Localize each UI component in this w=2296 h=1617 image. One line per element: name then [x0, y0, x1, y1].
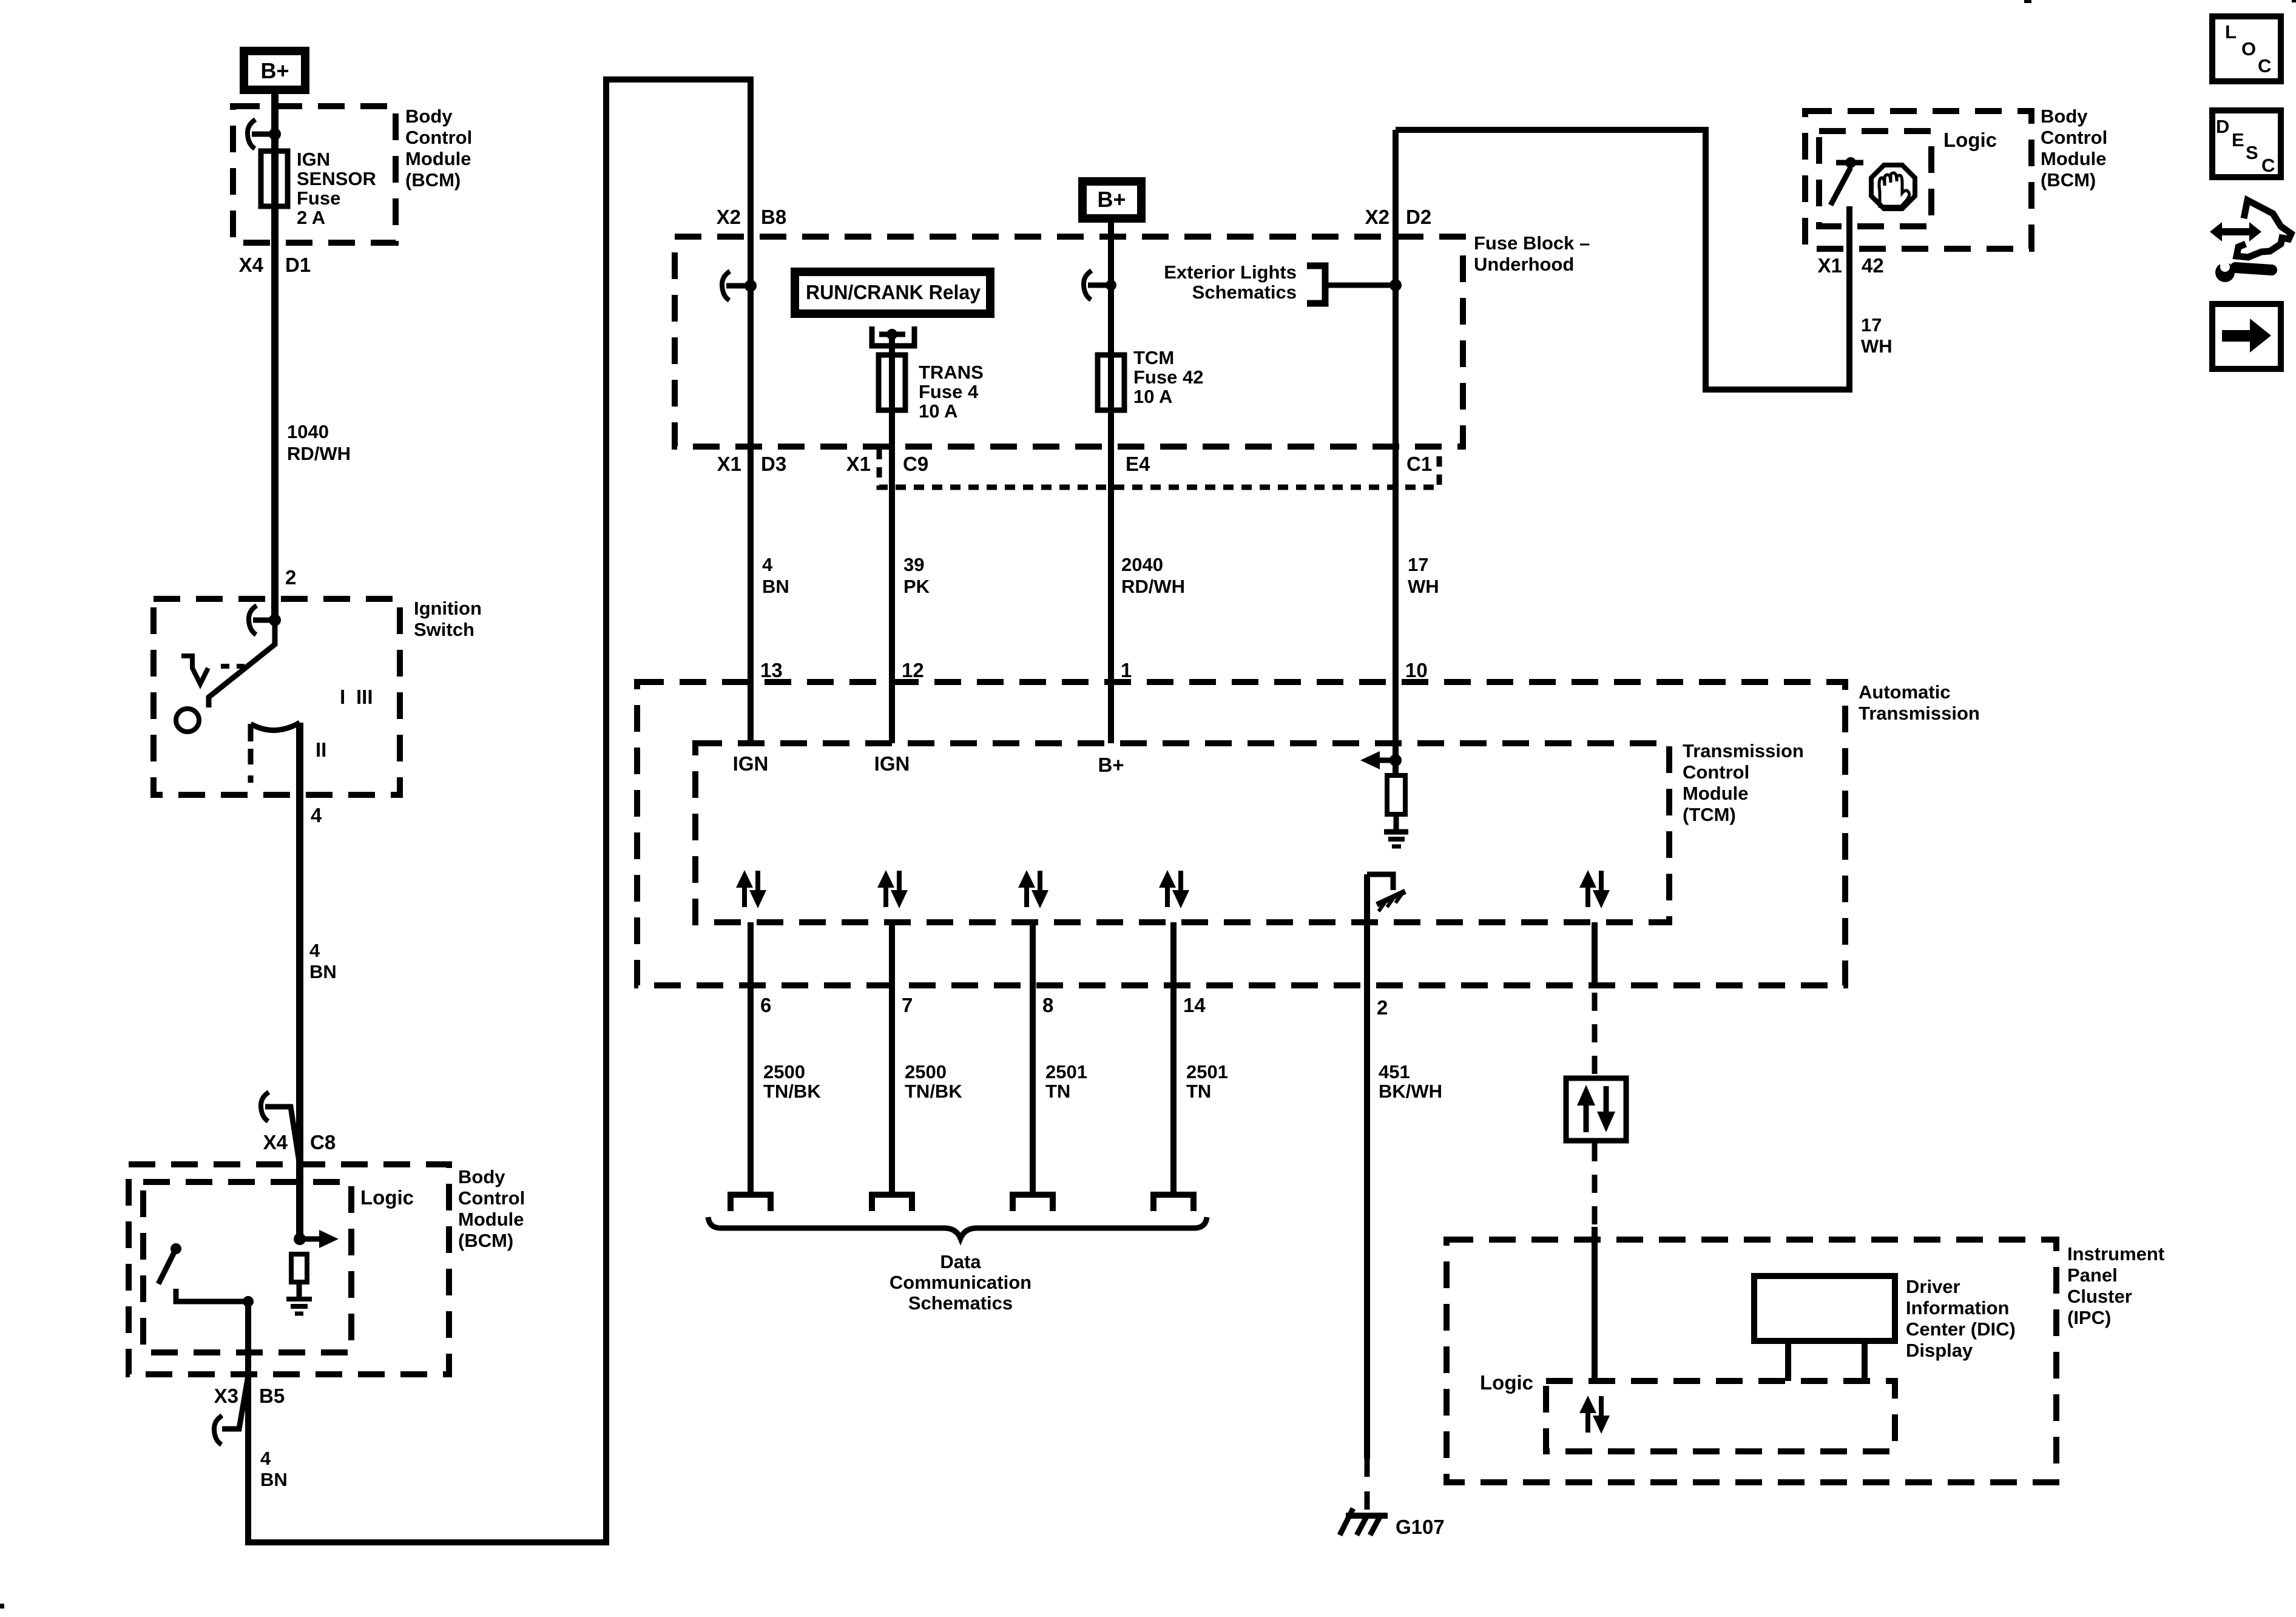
svg-text:(BCM): (BCM) — [405, 169, 461, 191]
svg-text:BN: BN — [309, 961, 337, 982]
svg-text:D: D — [2216, 116, 2229, 137]
svg-text:X1: X1 — [846, 453, 871, 475]
svg-text:B+: B+ — [1097, 187, 1126, 212]
svg-text:12: 12 — [902, 659, 924, 681]
svg-text:7: 7 — [902, 994, 913, 1016]
svg-text:Logic: Logic — [360, 1186, 414, 1209]
svg-text:L: L — [2225, 21, 2237, 42]
svg-text:10: 10 — [1405, 659, 1428, 681]
svg-text:III: III — [356, 686, 373, 708]
svg-text:Body: Body — [405, 106, 453, 127]
svg-text:17: 17 — [1408, 554, 1428, 575]
svg-text:C1: C1 — [1406, 453, 1432, 475]
svg-text:Control: Control — [1683, 761, 1749, 783]
svg-text:1: 1 — [1121, 659, 1132, 681]
svg-text:(IPC): (IPC) — [2067, 1307, 2111, 1328]
svg-text:Center (DIC): Center (DIC) — [1906, 1318, 2016, 1340]
svg-text:O: O — [2241, 38, 2256, 59]
svg-text:RD/WH: RD/WH — [1121, 576, 1185, 597]
svg-text:Ignition: Ignition — [414, 598, 482, 619]
svg-text:6: 6 — [760, 994, 771, 1016]
svg-text:D2: D2 — [1406, 206, 1431, 228]
svg-text:TRANS: TRANS — [919, 362, 984, 383]
svg-text:B+: B+ — [1098, 754, 1124, 776]
svg-text:Schematics: Schematics — [908, 1292, 1013, 1314]
svg-text:Logic: Logic — [1943, 129, 1997, 151]
svg-text:B8: B8 — [761, 206, 786, 228]
svg-text:Communication: Communication — [890, 1272, 1032, 1293]
svg-text:I: I — [340, 686, 345, 708]
svg-text:TN: TN — [1045, 1081, 1070, 1102]
svg-text:PK: PK — [903, 576, 930, 597]
svg-text:(BCM): (BCM) — [458, 1230, 513, 1251]
svg-text:Control: Control — [2041, 127, 2107, 148]
svg-text:X1: X1 — [1818, 254, 1842, 277]
svg-text:Information: Information — [1906, 1297, 2010, 1318]
svg-text:D1: D1 — [285, 254, 311, 276]
svg-text:Cluster: Cluster — [2067, 1286, 2132, 1307]
svg-text:8: 8 — [1042, 994, 1053, 1016]
svg-text:Schematics: Schematics — [1192, 282, 1297, 303]
svg-text:G107: G107 — [1396, 1516, 1445, 1538]
svg-text:D3: D3 — [761, 453, 786, 475]
svg-text:Control: Control — [405, 127, 472, 148]
svg-text:B5: B5 — [259, 1385, 285, 1407]
svg-text:10 A: 10 A — [1133, 386, 1172, 407]
svg-text:S: S — [2246, 142, 2258, 163]
svg-text:2: 2 — [1377, 996, 1388, 1019]
svg-text:(TCM): (TCM) — [1683, 804, 1736, 825]
svg-text:Body: Body — [2041, 106, 2088, 127]
svg-text:2: 2 — [285, 566, 296, 589]
svg-text:Control: Control — [458, 1187, 525, 1209]
svg-text:Data: Data — [940, 1251, 981, 1272]
svg-text:2501: 2501 — [1186, 1061, 1228, 1082]
svg-text:Module: Module — [2041, 148, 2107, 169]
svg-text:RD/WH: RD/WH — [287, 443, 351, 464]
svg-text:IGN: IGN — [733, 752, 769, 775]
svg-text:X4: X4 — [263, 1131, 288, 1153]
svg-text:4: 4 — [311, 804, 322, 826]
svg-text:X4: X4 — [239, 254, 264, 276]
svg-text:Fuse Block –: Fuse Block – — [1474, 232, 1590, 254]
svg-text:2500: 2500 — [763, 1061, 805, 1082]
svg-text:4: 4 — [260, 1448, 271, 1469]
svg-text:Underhood: Underhood — [1474, 254, 1574, 275]
svg-text:Body: Body — [458, 1166, 505, 1187]
svg-text:X3: X3 — [214, 1385, 238, 1407]
svg-text:17: 17 — [1861, 314, 1882, 336]
svg-text:X1: X1 — [717, 453, 741, 475]
svg-text:Switch: Switch — [414, 619, 474, 640]
svg-text:10 A: 10 A — [919, 400, 957, 422]
svg-text:2500: 2500 — [905, 1061, 947, 1082]
svg-text:BK/WH: BK/WH — [1379, 1081, 1442, 1102]
svg-text:Fuse 42: Fuse 42 — [1133, 366, 1203, 388]
svg-text:C: C — [2261, 155, 2275, 176]
svg-text:C: C — [2258, 55, 2271, 76]
svg-text:14: 14 — [1183, 994, 1206, 1016]
svg-text:IGN: IGN — [297, 149, 330, 170]
svg-text:Exterior Lights: Exterior Lights — [1164, 262, 1297, 283]
svg-text:451: 451 — [1379, 1061, 1410, 1082]
svg-text:X2: X2 — [717, 206, 741, 228]
svg-text:2 A: 2 A — [297, 207, 325, 228]
svg-text:Fuse 4: Fuse 4 — [919, 381, 979, 402]
svg-text:39: 39 — [903, 554, 924, 575]
svg-text:E: E — [2232, 129, 2244, 150]
svg-text:Transmission: Transmission — [1683, 740, 1804, 761]
svg-text:C8: C8 — [310, 1131, 336, 1153]
svg-text:4: 4 — [309, 940, 320, 961]
svg-text:WH: WH — [1861, 336, 1893, 357]
svg-text:WH: WH — [1408, 576, 1439, 597]
svg-text:Fuse: Fuse — [297, 187, 340, 209]
svg-text:BN: BN — [762, 576, 789, 597]
svg-text:4: 4 — [762, 554, 773, 575]
svg-text:(BCM): (BCM) — [2041, 169, 2096, 191]
svg-text:C9: C9 — [903, 453, 928, 475]
svg-text:Instrument: Instrument — [2067, 1243, 2164, 1264]
svg-text:RUN/CRANK Relay: RUN/CRANK Relay — [806, 281, 981, 303]
svg-text:SENSOR: SENSOR — [297, 168, 376, 189]
svg-text:TCM: TCM — [1133, 347, 1174, 368]
svg-text:Module: Module — [1683, 783, 1749, 804]
svg-text:E4: E4 — [1126, 453, 1150, 475]
svg-text:Logic: Logic — [1480, 1371, 1533, 1394]
svg-text:BN: BN — [260, 1469, 288, 1490]
svg-text:Driver: Driver — [1906, 1276, 1960, 1297]
svg-text:Transmission: Transmission — [1859, 703, 1980, 724]
svg-text:2040: 2040 — [1121, 554, 1163, 575]
svg-text:B+: B+ — [260, 58, 289, 83]
svg-text:TN: TN — [1186, 1081, 1211, 1102]
svg-text:Display: Display — [1906, 1340, 1973, 1361]
svg-text:Panel: Panel — [2067, 1264, 2118, 1286]
svg-text:II: II — [316, 738, 326, 761]
svg-text:1040: 1040 — [287, 421, 329, 442]
svg-text:13: 13 — [760, 659, 783, 681]
svg-text:2501: 2501 — [1045, 1061, 1087, 1082]
svg-text:42: 42 — [1862, 254, 1884, 277]
svg-text:Automatic: Automatic — [1859, 681, 1951, 703]
svg-text:TN/BK: TN/BK — [763, 1081, 821, 1102]
svg-text:Module: Module — [458, 1209, 524, 1230]
svg-text:Module: Module — [405, 148, 471, 169]
svg-text:IGN: IGN — [874, 752, 910, 775]
svg-text:TN/BK: TN/BK — [905, 1081, 962, 1102]
svg-text:X2: X2 — [1365, 206, 1389, 228]
